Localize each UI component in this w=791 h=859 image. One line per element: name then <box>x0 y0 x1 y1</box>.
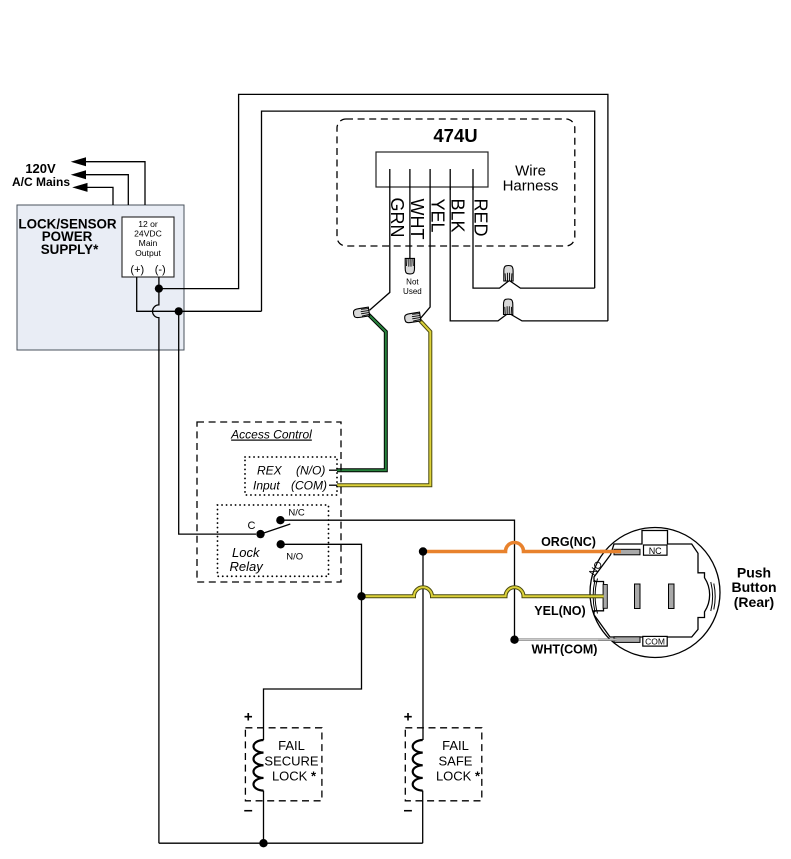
svg-text:REX: REX <box>257 464 283 478</box>
svg-text:120V: 120V <box>25 161 56 176</box>
svg-text:SUPPLY*: SUPPLY* <box>41 242 99 257</box>
svg-text:Input: Input <box>253 479 280 493</box>
svg-text:Used: Used <box>403 287 422 296</box>
svg-text:RED: RED <box>470 199 490 237</box>
svg-text:FAIL: FAIL <box>278 738 305 753</box>
wire: RED horizontal with splice peak <box>473 169 595 288</box>
NC terminal bar <box>614 549 640 555</box>
12/24VDC output terminal block <box>122 217 174 277</box>
svg-text:SECURE: SECURE <box>264 754 319 769</box>
NO terminal bar <box>603 585 607 609</box>
svg-text:(-): (-) <box>155 264 166 276</box>
wire: (+) terminal lead down and right <box>137 277 262 311</box>
mains wire 3 <box>87 187 114 205</box>
wire: BLK horizontal with splice peak <box>450 169 608 321</box>
yellow wire stub over button <box>589 594 604 598</box>
node: yellow junction dot <box>357 592 365 600</box>
relay N/C contact <box>276 516 284 524</box>
svg-text:WHT(COM): WHT(COM) <box>532 643 598 657</box>
pin BLK stub <box>449 169 451 190</box>
splice cap on GRN wire <box>353 307 370 318</box>
push button body outline <box>594 531 710 638</box>
splice cap on RED wire <box>504 266 513 282</box>
Push Button (Rear) label <box>731 565 776 611</box>
svg-text:(N/O): (N/O) <box>296 464 325 478</box>
right flange arcs <box>711 582 713 611</box>
svg-text:NC: NC <box>649 546 662 556</box>
svg-text:FAIL: FAIL <box>442 738 469 753</box>
mains wire 1 <box>85 162 145 205</box>
svg-text:YEL: YEL <box>427 199 447 233</box>
svg-text:N/O: N/O <box>286 552 303 563</box>
svg-text:12 or: 12 or <box>138 219 158 229</box>
fail safe coil L2 <box>413 740 423 791</box>
svg-text:Relay: Relay <box>230 559 265 574</box>
svg-text:Button: Button <box>731 579 776 595</box>
svg-text:Lock: Lock <box>232 545 261 560</box>
svg-text:ORG(NC): ORG(NC) <box>541 535 596 549</box>
white COM wire <box>515 639 618 641</box>
mains wire 2 <box>85 175 128 205</box>
svg-text:SAFE: SAFE <box>439 754 473 769</box>
svg-text:–: – <box>404 802 413 819</box>
fail safe coil bottom lead <box>422 791 424 844</box>
Access Control dashed box <box>197 422 341 582</box>
splice cap on WHT (not used) <box>405 258 414 274</box>
svg-text:GRN: GRN <box>387 198 407 238</box>
center slot right <box>669 584 675 609</box>
REX input dotted box <box>245 457 337 495</box>
wire: fail safe + lead <box>422 552 424 741</box>
mains arrow 1 <box>71 157 86 166</box>
svg-text:–: – <box>244 802 253 819</box>
svg-text:Harness: Harness <box>503 178 559 195</box>
yellow NO wire <box>362 587 605 596</box>
COM terminal bar <box>614 637 640 643</box>
orange wire stub over button <box>600 550 621 554</box>
svg-text:Output: Output <box>135 248 161 258</box>
left flange arcs <box>595 579 597 614</box>
Lock Relay dotted box <box>218 505 329 576</box>
orange NC wire <box>423 543 621 552</box>
Wire Harness label <box>503 163 559 195</box>
svg-text:Access Control: Access Control <box>230 428 312 442</box>
pin RED stub <box>472 169 474 190</box>
green REX wire <box>329 469 340 471</box>
white wire stub over button <box>598 639 617 641</box>
svg-text:COM: COM <box>645 637 665 647</box>
svg-text:+: + <box>404 709 413 726</box>
splice cap on YEL wire <box>404 312 421 323</box>
relay switch arm <box>261 524 291 534</box>
474U wire-harness dashed box <box>337 119 575 246</box>
node: COM corner dot <box>510 636 518 644</box>
pin WHT lead <box>409 169 411 258</box>
harness connector body <box>376 152 488 187</box>
wire: relay N/O down to yellow junction and to fail secure + <box>264 544 362 740</box>
fail secure coil bottom lead <box>263 791 265 844</box>
wire: bottom (-) rail <box>159 842 423 844</box>
power supply label <box>18 217 117 258</box>
push button COM tab box <box>643 636 667 646</box>
svg-text:N/C: N/C <box>288 508 305 519</box>
power supply PS1 box <box>17 205 184 350</box>
svg-text:(Rear): (Rear) <box>734 594 774 610</box>
yellow COM wire <box>329 484 340 486</box>
svg-text:A/C Mains: A/C Mains <box>12 175 70 189</box>
mains arrow 3 <box>72 183 87 192</box>
mains arrow 2 <box>71 170 86 179</box>
svg-text:LOCK *: LOCK * <box>436 769 481 784</box>
wire: (+) vertical down to lock relay C <box>179 311 256 534</box>
svg-text:(+): (+) <box>130 264 144 276</box>
svg-text:BLK: BLK <box>448 199 468 233</box>
node: (+) output junction dot <box>175 307 183 315</box>
node: (-) output junction dot <box>155 285 163 293</box>
fail secure coil L1 <box>254 740 264 791</box>
fail secure lock dashed box <box>245 728 322 801</box>
svg-text:C: C <box>248 520 256 532</box>
wire: (-) junction right, up and across top (outer loop) to BLK side <box>159 94 608 321</box>
pin YEL lead <box>421 169 431 318</box>
node: orange junction dot <box>419 547 427 555</box>
svg-text:474U: 474U <box>433 125 477 146</box>
center slot left <box>635 584 641 609</box>
node: bottom rail junction dot <box>259 839 267 847</box>
relay N/O contact <box>277 540 285 548</box>
svg-text:+: + <box>244 709 253 726</box>
push button outer circle <box>590 528 720 658</box>
wire: (+) loop up and across top (inner loop) to RED side <box>262 111 595 311</box>
Not Used label <box>403 278 422 297</box>
wire: (-) terminal lead down to junction <box>158 277 160 289</box>
svg-text:Not: Not <box>406 278 419 287</box>
svg-text:(COM): (COM) <box>291 479 327 493</box>
wire: (-) vertical down with hop over (+) wire <box>152 289 158 844</box>
svg-text:WHT: WHT <box>407 199 427 240</box>
svg-text:YEL(NO): YEL(NO) <box>534 604 585 618</box>
120V A/C Mains label <box>12 161 70 189</box>
splice cap on BLK wire <box>504 299 513 315</box>
fail safe lock dashed box <box>405 728 482 801</box>
svg-text:Main: Main <box>139 238 158 248</box>
svg-text:24VDC: 24VDC <box>134 229 162 239</box>
relay C contact <box>256 530 264 538</box>
svg-text:LOCK *: LOCK * <box>272 769 317 784</box>
push button NC tab box <box>644 545 668 555</box>
pin GRN lead <box>370 169 390 310</box>
wire: relay N/C to push button COM <box>280 520 514 640</box>
